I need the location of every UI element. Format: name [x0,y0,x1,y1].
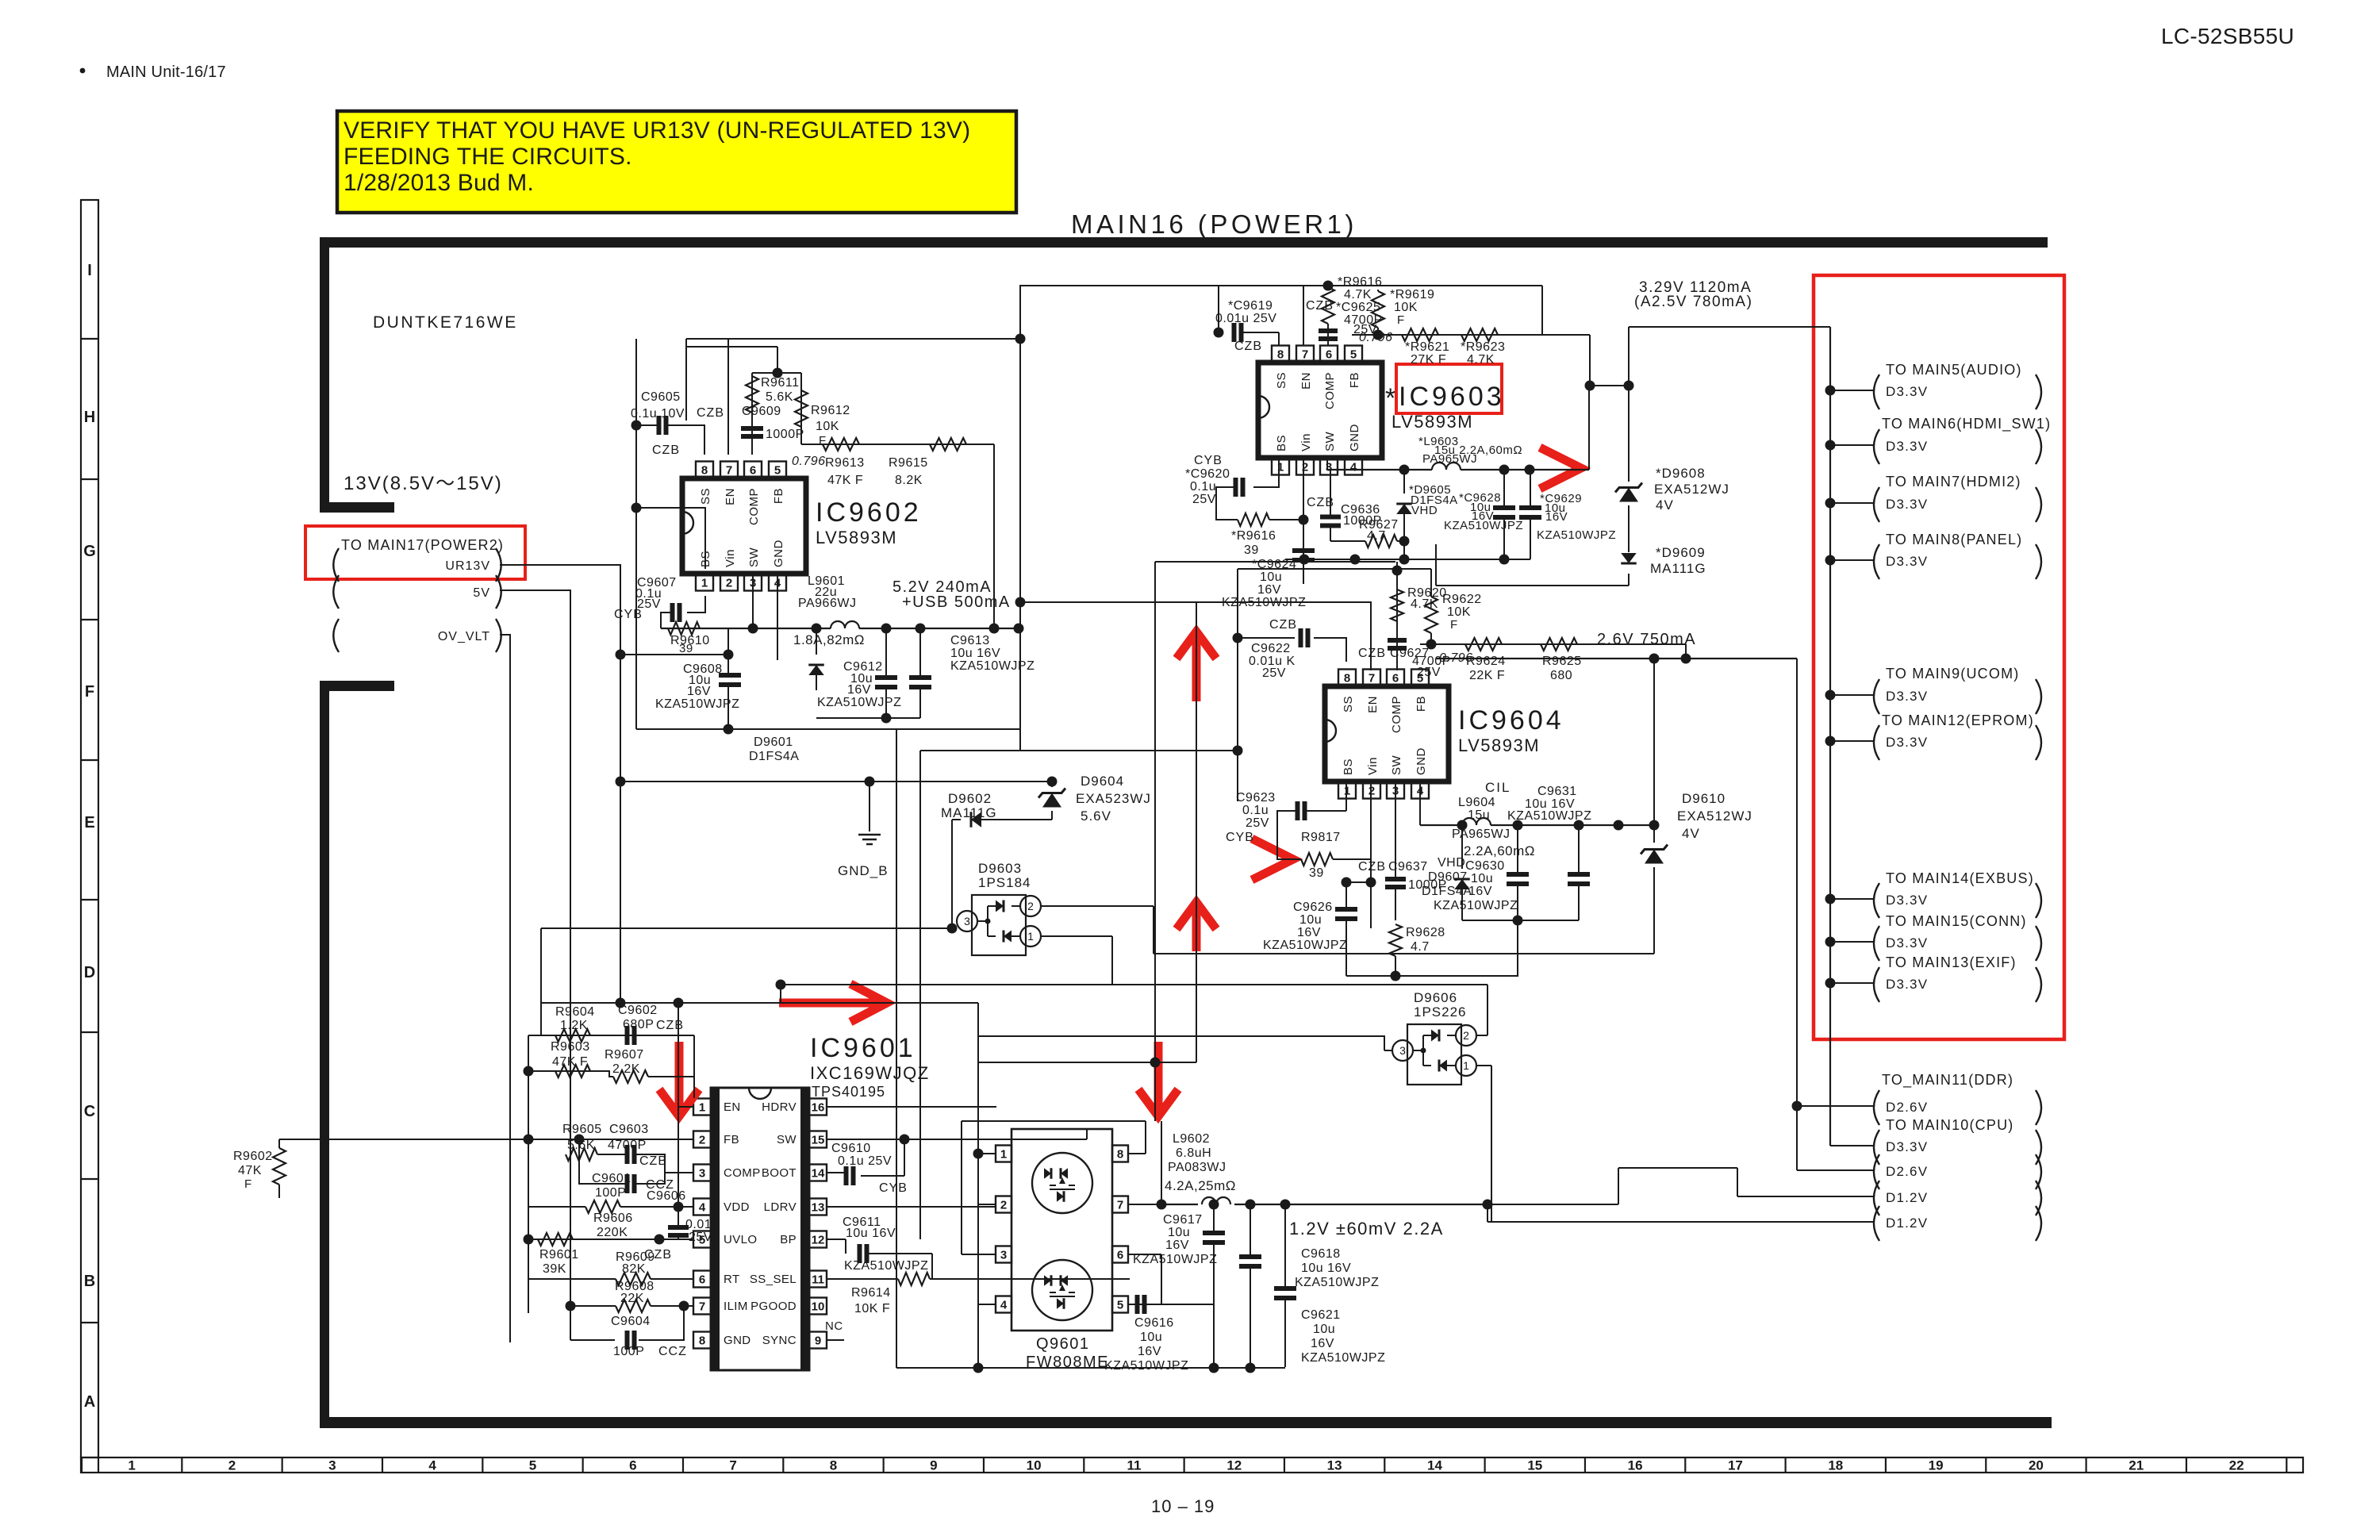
svg-text:R9628: R9628 [1406,926,1445,939]
svg-text:C9616: C9616 [1134,1316,1174,1330]
svg-text:1: 1 [128,1458,135,1473]
svg-text:17: 17 [1728,1458,1743,1473]
svg-text:25V: 25V [1262,666,1286,680]
svg-text:20: 20 [2029,1458,2044,1473]
svg-text:GND: GND [1415,747,1428,775]
svg-text:680: 680 [1550,669,1572,682]
svg-text:22K: 22K [620,1292,644,1305]
svg-text:IXC169WJQZ: IXC169WJQZ [810,1063,930,1083]
svg-text:C9610: C9610 [831,1142,871,1155]
svg-text:TO MAIN12(EPROM): TO MAIN12(EPROM) [1882,712,2034,728]
svg-text:MAIN Unit-16/17: MAIN Unit-16/17 [106,63,226,81]
svg-text:2: 2 [1027,900,1034,912]
svg-text:+USB 500mA: +USB 500mA [902,593,1011,611]
svg-text:TO MAIN8(PANEL): TO MAIN8(PANEL) [1886,532,2022,547]
svg-text:C9618: C9618 [1301,1247,1341,1261]
svg-text:R9613: R9613 [825,456,865,470]
svg-text:D2.6V: D2.6V [1886,1164,1928,1179]
svg-text:10: 10 [1027,1458,1042,1473]
svg-text:TO MAIN5(AUDIO): TO MAIN5(AUDIO) [1886,362,2022,378]
svg-text:CYB: CYB [614,608,643,621]
svg-text:10K: 10K [816,420,839,433]
svg-text:D3.3V: D3.3V [1886,554,1928,569]
svg-text:10u 16V: 10u 16V [950,647,1000,660]
svg-text:D3.3V: D3.3V [1886,893,1928,908]
svg-text:D: D [84,964,95,981]
svg-text:RT: RT [724,1273,740,1286]
svg-text:13V(8.5V〜15V): 13V(8.5V〜15V) [344,473,503,494]
svg-text:D9607: D9607 [1428,870,1468,884]
svg-text:KZA510WJPZ: KZA510WJPZ [817,696,901,709]
svg-text:R9611: R9611 [761,376,799,390]
svg-text:14: 14 [1427,1458,1442,1473]
svg-text:D1.2V: D1.2V [1886,1190,1928,1205]
svg-text:IC9602: IC9602 [816,497,922,528]
svg-text:I: I [87,262,92,279]
svg-text:H: H [84,409,95,426]
svg-text:CYB: CYB [879,1181,908,1195]
svg-text:1.2V ±60mV 2.2A: 1.2V ±60mV 2.2A [1289,1219,1444,1239]
svg-text:3: 3 [699,1166,705,1180]
svg-text:CZB: CZB [1306,299,1334,313]
svg-text:6: 6 [750,463,756,477]
svg-text:LV5893M: LV5893M [1458,735,1540,755]
svg-text:10K: 10K [1394,301,1418,314]
svg-text:GND: GND [772,540,785,567]
svg-text:D3.3V: D3.3V [1886,497,1928,512]
svg-text:EN: EN [724,1100,741,1114]
svg-text:10: 10 [812,1300,825,1313]
svg-text:5: 5 [529,1458,536,1473]
svg-text:19: 19 [1929,1458,1944,1473]
svg-text:*D9609: *D9609 [1656,545,1706,560]
svg-text:C9604: C9604 [611,1315,651,1328]
svg-text:R9601: R9601 [539,1248,579,1262]
svg-text:4.7K: 4.7K [1344,288,1372,301]
svg-text:C: C [84,1103,95,1120]
svg-text:2: 2 [1463,1029,1469,1042]
svg-text:R9624: R9624 [1466,655,1506,668]
svg-text:3: 3 [328,1458,336,1473]
svg-text:B: B [84,1273,95,1290]
svg-text:CYB: CYB [1194,454,1223,467]
svg-text:KZA510WJPZ: KZA510WJPZ [950,659,1035,673]
svg-text:*R9616: *R9616 [1231,529,1276,543]
svg-text:0.1u: 0.1u [1242,804,1269,817]
svg-text:C9609: C9609 [742,405,781,418]
svg-text:8: 8 [1277,348,1284,361]
svg-text:22K F: 22K F [1469,669,1505,682]
svg-text:TO MAIN14(EXBUS): TO MAIN14(EXBUS) [1886,870,2034,886]
svg-text:CYB: CYB [1226,831,1254,844]
svg-text:25V: 25V [1246,816,1269,830]
svg-text:CZB: CZB [652,444,680,457]
svg-text:C9606: C9606 [647,1189,686,1203]
svg-text:D9604: D9604 [1081,774,1124,789]
svg-text:A: A [84,1393,95,1411]
svg-text:15: 15 [1527,1458,1542,1473]
svg-text:GND: GND [724,1334,751,1347]
svg-text:16V: 16V [1165,1239,1189,1252]
svg-text:D3.3V: D3.3V [1886,1139,1928,1154]
svg-text:16V: 16V [1311,1337,1334,1350]
svg-text:7: 7 [729,1458,736,1473]
svg-text:CZB: CZB [1358,647,1386,660]
svg-text:D3.3V: D3.3V [1886,689,1928,704]
svg-text:0.1u 10V: 0.1u 10V [631,407,685,421]
svg-text:EXA512WJ: EXA512WJ [1654,482,1729,497]
svg-text:25V: 25V [689,1231,712,1244]
svg-text:C9602: C9602 [618,1004,658,1017]
svg-text:10 – 19: 10 – 19 [1151,1496,1215,1516]
svg-text:0.1u: 0.1u [1190,480,1216,493]
svg-text:R9603: R9603 [551,1040,590,1054]
svg-text:CCZ: CCZ [658,1345,687,1358]
svg-text:TO MAIN17(POWER2): TO MAIN17(POWER2) [341,537,504,553]
svg-text:R9817: R9817 [1301,831,1341,844]
svg-text:D9603: D9603 [978,861,1022,876]
svg-text:EN: EN [1366,696,1380,713]
svg-text:LC-52SB55U: LC-52SB55U [2161,24,2294,48]
svg-text:OV_VLT: OV_VLT [438,630,490,643]
svg-text:TO MAIN6(HDMI_SW1): TO MAIN6(HDMI_SW1) [1882,416,2051,432]
svg-text:C9631: C9631 [1537,785,1577,798]
svg-text:1: 1 [701,576,708,590]
svg-text:R9606: R9606 [593,1212,633,1225]
svg-text:10u: 10u [1299,913,1322,927]
svg-text:4V: 4V [1656,497,1674,513]
svg-text:DUNTKE716WE: DUNTKE716WE [373,313,518,332]
svg-text:14: 14 [812,1166,825,1180]
svg-text:47K F: 47K F [827,474,863,487]
svg-text:4.2A,25mΩ: 4.2A,25mΩ [1165,1178,1236,1193]
svg-text:10u 16V: 10u 16V [1301,1262,1351,1275]
svg-text:R9607: R9607 [605,1048,644,1062]
svg-text:D3.3V: D3.3V [1886,935,1928,950]
svg-text:KZA510WJPZ: KZA510WJPZ [1444,519,1523,532]
svg-text:FB: FB [1348,372,1361,388]
svg-text:F: F [1397,313,1405,327]
svg-text:6: 6 [1117,1248,1123,1262]
svg-text:8: 8 [699,1334,705,1347]
svg-text:680P: 680P [623,1018,654,1031]
svg-text:1PS226: 1PS226 [1414,1004,1467,1020]
svg-text:3: 3 [1399,1044,1406,1057]
svg-text:D1FS4A: D1FS4A [749,750,799,763]
svg-text:4: 4 [428,1458,436,1473]
svg-text:SS: SS [699,488,712,505]
svg-text:22: 22 [2229,1458,2244,1473]
svg-text:TO_MAIN11(DDR): TO_MAIN11(DDR) [1882,1072,2013,1089]
svg-text:D3.3V: D3.3V [1886,977,1928,992]
svg-text:UVLO: UVLO [724,1233,757,1246]
svg-text:25V: 25V [1417,666,1441,679]
svg-text:Vin: Vin [1299,433,1313,451]
svg-text:D3.3V: D3.3V [1886,735,1928,750]
svg-text:FB: FB [1415,696,1428,712]
svg-text:5: 5 [774,463,781,477]
svg-text:6.8uH: 6.8uH [1176,1146,1211,1160]
svg-text:C9605: C9605 [641,390,681,404]
svg-text:*D9608: *D9608 [1656,466,1706,481]
svg-text:C9603: C9603 [609,1123,649,1136]
svg-text:Q9601: Q9601 [1036,1335,1090,1353]
svg-text:C9626: C9626 [1293,901,1333,914]
svg-text:15u: 15u [1468,808,1490,822]
svg-text:KZA510WJPZ: KZA510WJPZ [1301,1351,1385,1365]
svg-text:R9622: R9622 [1442,593,1482,606]
svg-text:2: 2 [699,1133,705,1146]
svg-text:LDRV: LDRV [764,1200,797,1214]
svg-text:10K: 10K [1447,605,1471,619]
svg-text:1.2K: 1.2K [560,1019,588,1032]
svg-text:MAIN16 (POWER1): MAIN16 (POWER1) [1071,209,1357,239]
svg-text:6: 6 [699,1273,705,1286]
svg-text:2: 2 [228,1458,236,1473]
svg-text:KZA510WJPZ: KZA510WJPZ [655,697,739,711]
svg-text:EN: EN [724,488,737,505]
svg-text:16V: 16V [1297,926,1321,939]
svg-text:0.796: 0.796 [792,455,826,468]
svg-text:12: 12 [1226,1458,1242,1473]
svg-text:10u: 10u [1260,570,1282,584]
svg-text:R9614: R9614 [851,1286,891,1300]
svg-text:5.6K: 5.6K [766,390,793,404]
svg-text:5.6V: 5.6V [1081,808,1111,824]
svg-text:F: F [1450,618,1458,632]
svg-text:TO MAIN9(UCOM): TO MAIN9(UCOM) [1886,666,2019,682]
svg-text:EXA523WJ: EXA523WJ [1076,791,1151,806]
svg-text:R9604: R9604 [555,1005,595,1019]
svg-text:2.2A,60mΩ: 2.2A,60mΩ [1464,843,1535,858]
svg-text:D3.3V: D3.3V [1886,439,1928,454]
svg-text:220K: 220K [597,1226,628,1239]
svg-text:KZA510WJPZ: KZA510WJPZ [1222,596,1306,609]
svg-text:D9606: D9606 [1414,990,1457,1005]
svg-text:PA965WJ: PA965WJ [1422,452,1477,466]
svg-text:2.2K: 2.2K [612,1062,640,1076]
svg-text:6: 6 [629,1458,636,1473]
svg-text:KZA510WJPZ: KZA510WJPZ [1133,1253,1217,1266]
svg-text:82K: 82K [622,1262,646,1276]
svg-text:*C9620: *C9620 [1185,467,1230,481]
svg-text:C9617: C9617 [1163,1213,1203,1227]
svg-text:5: 5 [1117,1298,1123,1311]
svg-text:*R9621: *R9621 [1405,340,1449,354]
svg-text:SYNC: SYNC [762,1334,797,1347]
svg-text:1: 1 [1027,930,1034,943]
svg-text:10u: 10u [1313,1323,1335,1336]
svg-text:*R9616: *R9616 [1338,275,1382,289]
svg-text:D2.6V: D2.6V [1886,1100,1928,1115]
svg-text:CZB: CZB [1269,618,1297,632]
svg-text:4.7: 4.7 [1411,940,1430,954]
svg-text:*C9619: *C9619 [1228,299,1273,313]
svg-text:F: F [244,1177,252,1191]
svg-text:2: 2 [1000,1198,1007,1212]
svg-text:VERIFY THAT YOU HAVE UR13V (UN: VERIFY THAT YOU HAVE UR13V (UN-REGULATED… [344,117,970,144]
svg-text:39: 39 [1244,543,1259,557]
svg-text:4: 4 [1000,1298,1008,1311]
svg-text:6: 6 [1392,671,1399,685]
svg-text:27K F: 27K F [1411,353,1446,367]
svg-text:COMP: COMP [724,1166,761,1180]
svg-text:39: 39 [679,642,693,655]
svg-text:VHD: VHD [1411,504,1438,517]
svg-text:1: 1 [1000,1147,1007,1161]
svg-text:4: 4 [699,1200,706,1214]
svg-text:ILIM: ILIM [724,1300,748,1313]
svg-text:PGOOD: PGOOD [750,1300,797,1313]
svg-text:KZA510WJPZ: KZA510WJPZ [844,1259,928,1273]
svg-text:7: 7 [1117,1198,1123,1212]
svg-text:KZA510WJPZ: KZA510WJPZ [1104,1359,1188,1373]
svg-text:*R9619: *R9619 [1390,288,1434,301]
svg-text:0.01u: 0.01u [685,1218,720,1231]
svg-text:C9622: C9622 [1251,642,1291,655]
svg-text:TO MAIN15(CONN): TO MAIN15(CONN) [1886,913,2027,929]
svg-text:IC9603: IC9603 [1399,382,1505,412]
svg-text:D9601: D9601 [754,735,793,749]
svg-text:Vin: Vin [1366,757,1380,775]
svg-text:21: 21 [2129,1458,2144,1473]
svg-text:R9602: R9602 [233,1150,273,1163]
svg-text:16V: 16V [687,685,711,698]
svg-text:C9623: C9623 [1236,791,1276,805]
svg-text:BS: BS [1275,435,1288,451]
svg-text:D3.3V: D3.3V [1886,384,1928,399]
svg-text:Vin: Vin [724,549,737,567]
svg-text:GND: GND [1348,424,1361,451]
svg-text:SW: SW [1390,755,1403,775]
svg-text:EXA512WJ: EXA512WJ [1677,808,1752,824]
svg-text:5V: 5V [473,586,490,600]
svg-text:8: 8 [830,1458,837,1473]
svg-text:MA111G: MA111G [1650,561,1706,576]
svg-text:39: 39 [1309,866,1324,880]
svg-text:TPS40195: TPS40195 [812,1084,885,1100]
svg-text:10u: 10u [1168,1226,1190,1239]
svg-text:D9602: D9602 [948,791,992,806]
svg-text:39K: 39K [543,1262,566,1276]
svg-text:LV5893M: LV5893M [816,528,897,547]
svg-text:C9621: C9621 [1301,1308,1341,1322]
svg-text:16V: 16V [1257,583,1281,597]
svg-text:PA083WJ: PA083WJ [1168,1161,1226,1174]
svg-text:1.8A,82mΩ: 1.8A,82mΩ [793,632,865,647]
svg-text:TO MAIN7(HDMI2): TO MAIN7(HDMI2) [1886,474,2021,490]
svg-text:CIL: CIL [1485,780,1511,795]
svg-text:CZB: CZB [656,1019,684,1032]
svg-text:KZA510WJPZ: KZA510WJPZ [1434,899,1518,912]
svg-text:BP: BP [780,1233,797,1246]
svg-text:F: F [85,683,94,701]
svg-text:5.6K: 5.6K [567,1139,595,1152]
svg-text:FB: FB [724,1133,739,1146]
svg-text:4700P: 4700P [608,1139,647,1152]
svg-text:1PS184: 1PS184 [978,875,1031,890]
svg-text:7: 7 [699,1300,705,1313]
svg-text:SS: SS [1342,696,1355,712]
svg-text:1: 1 [1463,1059,1469,1072]
svg-text:BS: BS [1342,758,1355,775]
svg-text:18: 18 [1828,1458,1843,1473]
svg-text:9: 9 [930,1458,937,1473]
svg-text:16: 16 [812,1100,825,1114]
svg-text:SW: SW [747,547,761,567]
svg-text:16: 16 [1628,1458,1643,1473]
svg-text:(A2.5V 780mA): (A2.5V 780mA) [1634,294,1752,310]
svg-text:E: E [84,814,94,831]
svg-text:R9625: R9625 [1542,655,1582,668]
svg-text:KZA510WJPZ: KZA510WJPZ [1507,809,1591,823]
svg-text:COMP: COMP [1390,696,1403,733]
svg-text:8: 8 [701,463,708,477]
svg-text:16V: 16V [1138,1345,1161,1358]
svg-text:13: 13 [812,1200,825,1214]
svg-text:7: 7 [1368,671,1375,685]
svg-text:R9605: R9605 [562,1123,602,1136]
svg-text:16V: 16V [847,683,871,697]
svg-text:D1.2V: D1.2V [1886,1215,1928,1231]
svg-text:13: 13 [1327,1458,1342,1473]
svg-text:10u: 10u [1471,872,1493,885]
svg-text:11: 11 [812,1273,824,1286]
svg-text:IC9604: IC9604 [1458,705,1564,735]
svg-text:VHD: VHD [1438,856,1465,870]
svg-text:4.7K: 4.7K [1467,353,1495,367]
svg-text:0.796: 0.796 [1359,331,1393,344]
svg-text:C9637: C9637 [1388,860,1428,874]
svg-text:FB: FB [772,488,785,504]
svg-text:SW: SW [1323,431,1337,451]
svg-text:1: 1 [699,1100,705,1114]
svg-text:D1FS4A: D1FS4A [1422,885,1472,898]
svg-text:CZB: CZB [1234,340,1262,353]
svg-text:PA966WJ: PA966WJ [798,597,856,610]
svg-text:47K F: 47K F [552,1055,588,1069]
svg-text:100P: 100P [595,1186,626,1200]
svg-text:L9604: L9604 [1458,796,1495,809]
svg-text:EN: EN [1299,372,1313,390]
svg-text:2.6V 750mA: 2.6V 750mA [1597,631,1696,648]
svg-text:VDD: VDD [724,1200,750,1214]
svg-text:4.7: 4.7 [1367,529,1386,543]
svg-text:1000P: 1000P [766,428,804,441]
svg-text:GND_B: GND_B [838,863,889,878]
svg-text:3: 3 [964,915,970,927]
svg-text:KZA510WJPZ: KZA510WJPZ [1295,1276,1379,1289]
svg-text:0.1u 25V: 0.1u 25V [838,1154,892,1168]
svg-text:*R9623: *R9623 [1461,340,1505,354]
svg-text:6: 6 [1326,348,1332,361]
svg-text:4.7K: 4.7K [1411,597,1438,611]
svg-text:D9610: D9610 [1682,791,1725,806]
svg-text:NC: NC [825,1319,843,1333]
svg-text:PA965WJ: PA965WJ [1452,828,1510,841]
svg-text:3: 3 [1000,1248,1007,1262]
svg-text:10u 16V: 10u 16V [846,1227,896,1240]
svg-text:R9615: R9615 [889,456,928,470]
svg-text:TO MAIN10(CPU): TO MAIN10(CPU) [1886,1117,2014,1133]
svg-text:SS: SS [1275,372,1288,389]
svg-text:15: 15 [812,1133,825,1146]
svg-text:16V: 16V [1468,885,1492,898]
svg-text:C9630: C9630 [1465,859,1505,873]
svg-text:HDRV: HDRV [762,1100,797,1114]
svg-text:4V: 4V [1682,826,1700,841]
svg-text:7: 7 [726,463,732,477]
